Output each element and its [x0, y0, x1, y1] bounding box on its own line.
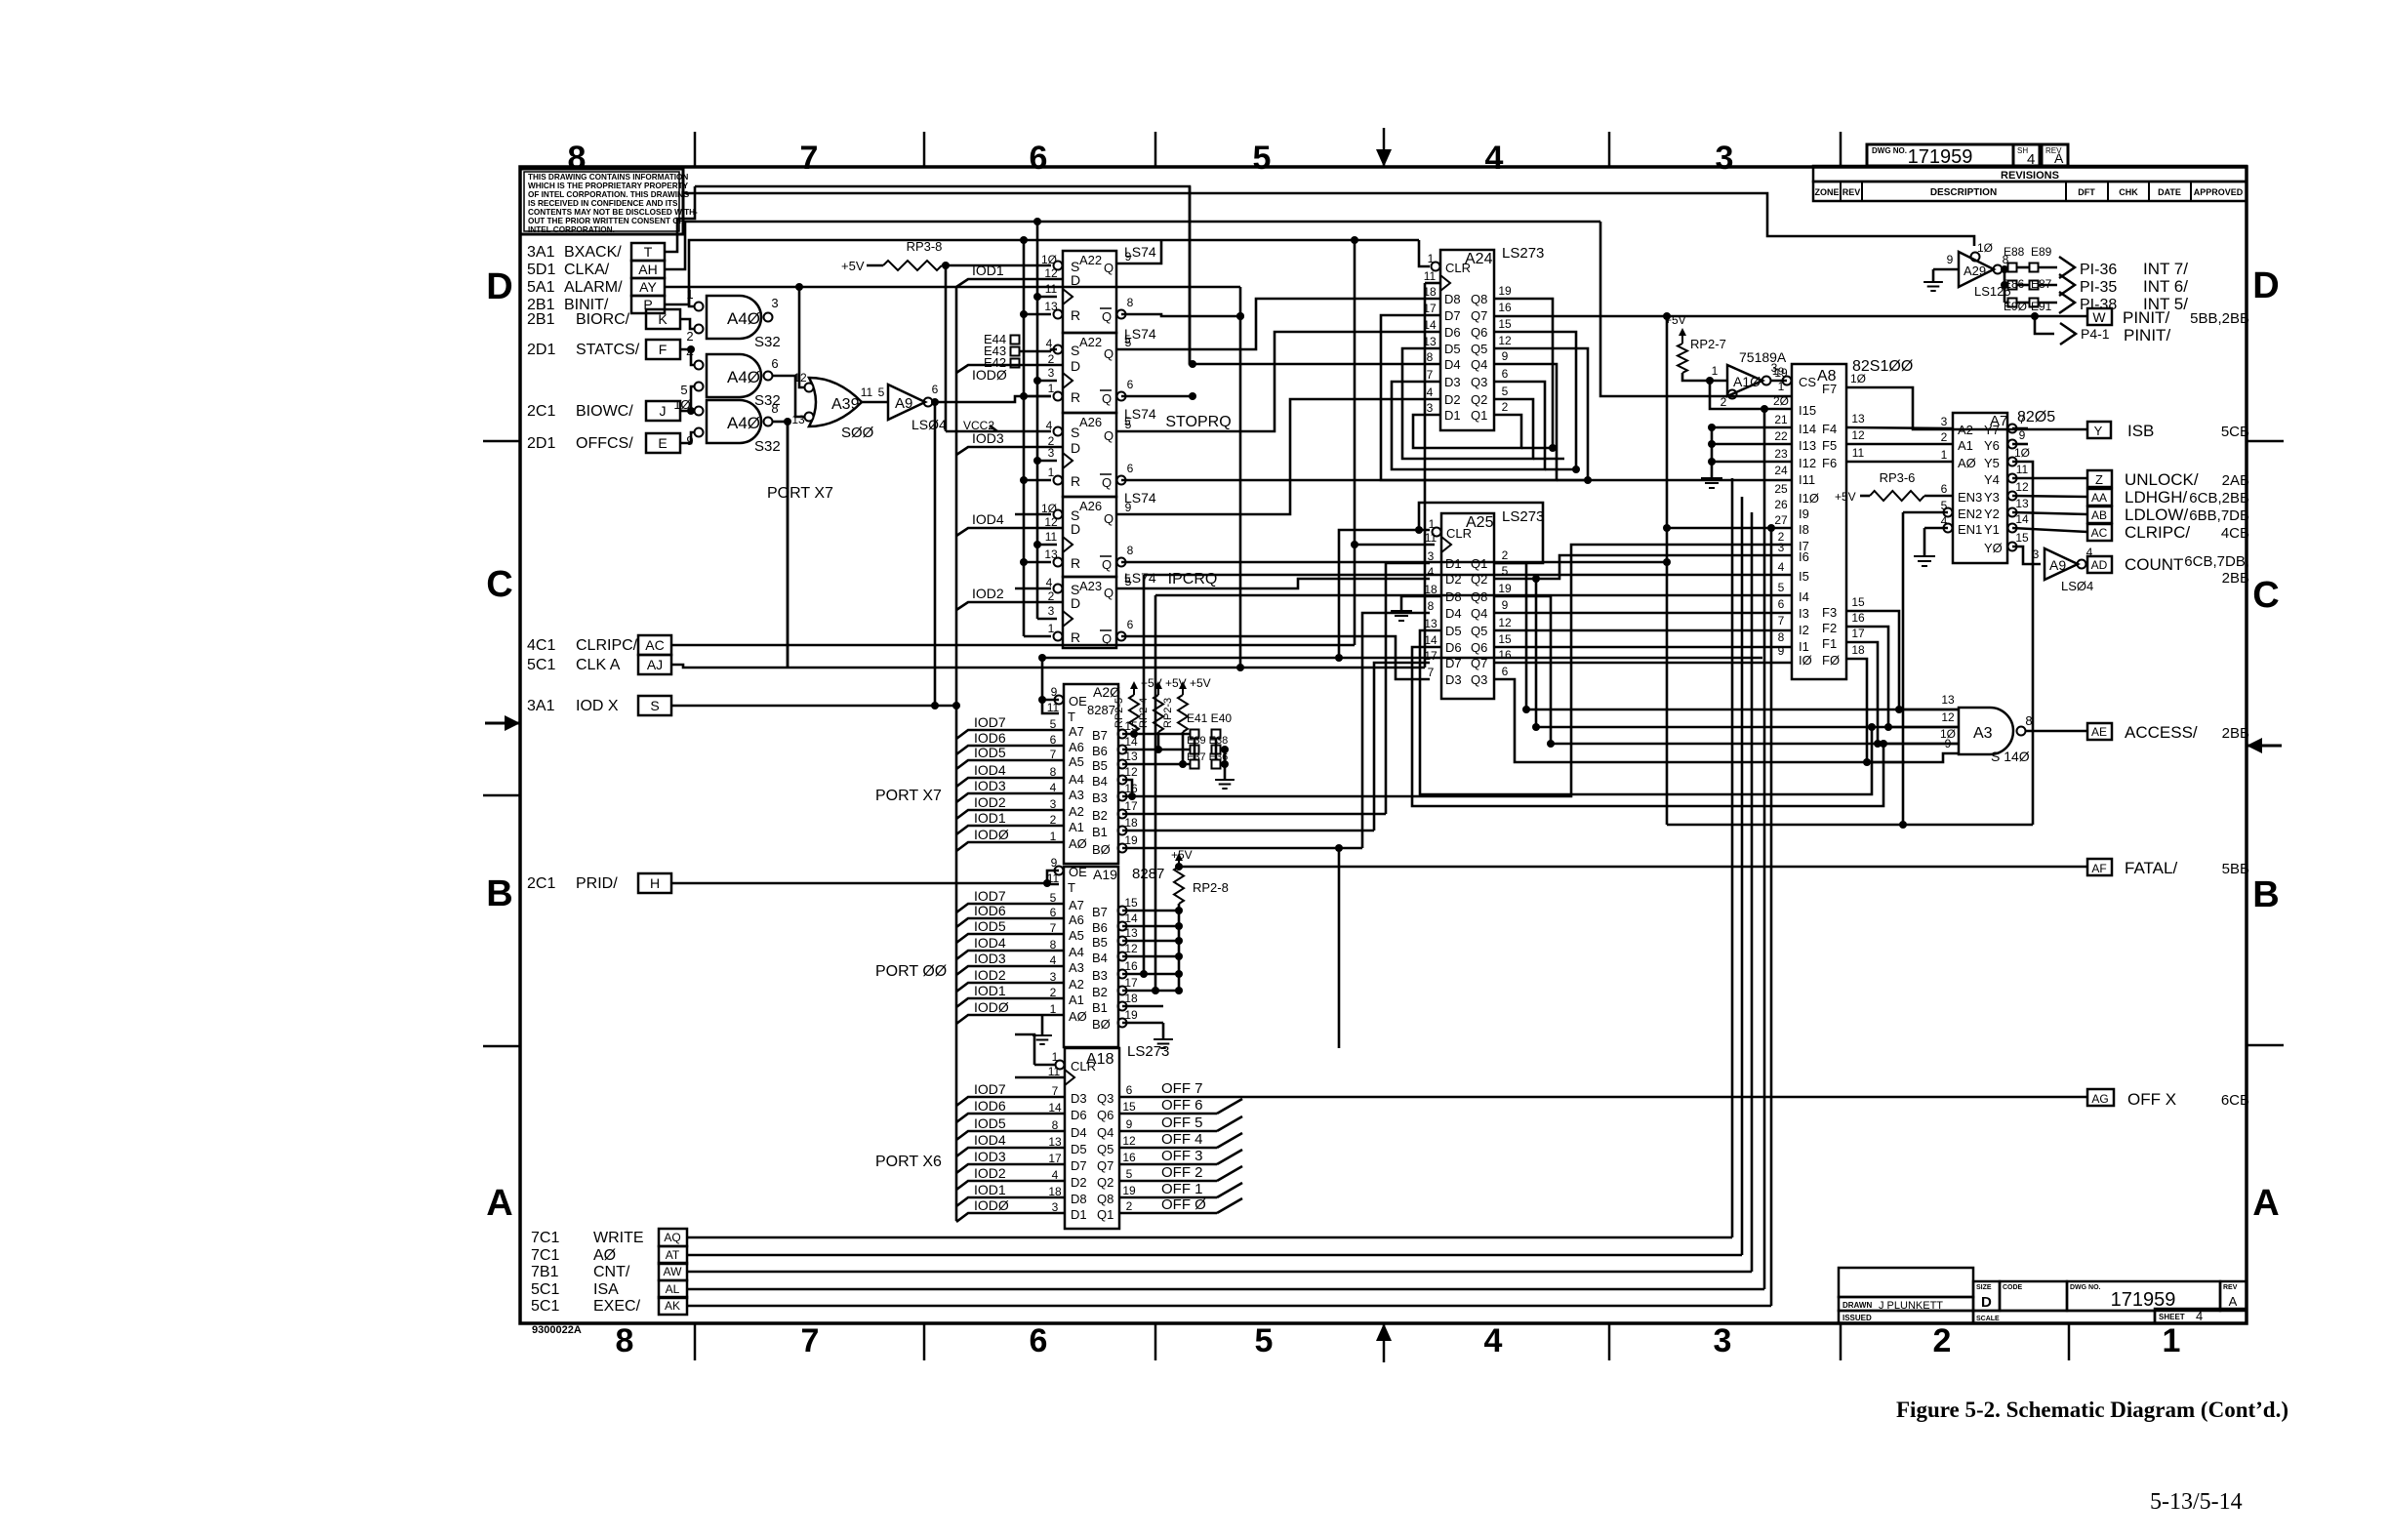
wire A25 bottom loop [1420, 630, 1876, 794]
svg-text:A22: A22 [1079, 253, 1102, 267]
svg-text:3: 3 [1427, 401, 1434, 415]
wire EN1 ground [1914, 528, 1948, 566]
jumper E37 E36 [1187, 751, 1229, 769]
wire A18 IOD4 [956, 1132, 1065, 1156]
svg-text:19: 19 [1498, 284, 1512, 298]
input OFFCS/ 2D1 [527, 435, 633, 452]
svg-text:CLRIPC/: CLRIPC/ [2125, 523, 2190, 542]
svg-text:1: 1 [1941, 448, 1948, 462]
svg-text:DWG NO.: DWG NO. [1872, 146, 1907, 155]
buffer A39 LS125 [1947, 241, 2011, 299]
svg-text:OFF 7: OFF 7 [1161, 1080, 1203, 1097]
svg-text:+5V: +5V [1190, 676, 1211, 690]
svg-text:Q: Q [1102, 391, 1112, 406]
wire IOD1 to FF D [956, 263, 1063, 287]
wire A40b out to OR pin13 [772, 376, 805, 417]
wire F5 to A1 [1846, 443, 1953, 446]
svg-text:WRITE: WRITE [593, 1230, 644, 1246]
zone letter left D [486, 266, 512, 307]
svg-text:3: 3 [1941, 415, 1948, 428]
svg-text:D: D [1071, 272, 1080, 288]
svg-text:5C1: 5C1 [527, 657, 555, 673]
wire notice-line to LS125 pin10 [683, 193, 1974, 246]
connector Z UNLOCK [2087, 470, 2249, 489]
svg-text:D4: D4 [1445, 606, 1462, 621]
svg-text:IOD6: IOD6 [974, 1098, 1006, 1114]
wire A18 IOD2 [956, 1165, 1065, 1190]
scan id 9300022A [532, 1324, 582, 1336]
svg-text:D3: D3 [1071, 1091, 1087, 1106]
connector AW [659, 1263, 687, 1280]
wire OFF 2 [1119, 1164, 1242, 1181]
svg-text:I6: I6 [1799, 549, 1809, 564]
svg-text:+5V: +5V [841, 259, 865, 273]
svg-text:DWG NO.: DWG NO. [2070, 1284, 2101, 1291]
wire A24 Q8 out [1494, 299, 1557, 452]
svg-text:CODE: CODE [2003, 1284, 2023, 1291]
wire Y2 to AB [2012, 512, 2087, 514]
svg-text:3: 3 [1716, 140, 1734, 177]
proprietary notice box [520, 169, 698, 234]
svg-text:B6: B6 [1092, 920, 1108, 935]
PLA A8 82S100 [1773, 358, 1913, 679]
svg-text:IOD3: IOD3 [974, 778, 1006, 793]
svg-text:9: 9 [1126, 1117, 1133, 1131]
svg-text:13: 13 [1044, 547, 1058, 561]
wire INT5 [2038, 292, 2188, 313]
svg-text:INT 6/: INT 6/ [2143, 277, 2188, 296]
svg-text:PORT ØØ: PORT ØØ [875, 963, 947, 980]
svg-text:IOD4: IOD4 [972, 511, 1004, 527]
svg-text:D1: D1 [1071, 1207, 1087, 1222]
svg-text:REV: REV [2223, 1284, 2238, 1291]
svg-text:AØ: AØ [1069, 836, 1087, 851]
svg-text:F1: F1 [1822, 636, 1837, 651]
svg-text:OFF 1: OFF 1 [1161, 1181, 1203, 1197]
svg-text:Q: Q [1104, 346, 1114, 361]
svg-text:A22: A22 [1079, 335, 1102, 349]
svg-text:CLR: CLR [1446, 526, 1472, 541]
svg-text:D: D [486, 266, 512, 307]
svg-text:D2: D2 [1444, 392, 1461, 407]
svg-text:IOD3: IOD3 [972, 430, 1004, 446]
svg-text:A1: A1 [1958, 438, 1973, 453]
svg-text:Y4: Y4 [1984, 472, 2000, 487]
wire A24 clk feed [1425, 282, 1440, 285]
svg-text:IOD7: IOD7 [974, 888, 1006, 904]
zone number bottom 8 [616, 1322, 634, 1359]
wire E to A40c [680, 432, 694, 443]
svg-text:RP3-8: RP3-8 [907, 239, 943, 254]
svg-text:Q: Q [1104, 586, 1114, 600]
svg-text:6: 6 [1127, 618, 1134, 631]
svg-text:F3: F3 [1822, 605, 1837, 620]
wire A10 to A8 CS [1770, 366, 1787, 381]
svg-text:7B1: 7B1 [531, 1264, 559, 1280]
svg-text:EN1: EN1 [1958, 522, 1982, 537]
svg-text:B1: B1 [1092, 1000, 1108, 1015]
connector AG OFFX [2087, 1089, 2249, 1109]
svg-text:AT: AT [666, 1248, 680, 1262]
svg-text:T: T [1068, 709, 1075, 724]
svg-text:I5: I5 [1799, 569, 1809, 584]
svg-text:I4: I4 [1799, 589, 1809, 604]
svg-text:D4: D4 [1071, 1125, 1087, 1140]
wire IOD2 to FF D [956, 586, 1063, 610]
wire CNT/ long [687, 512, 1752, 1272]
svg-text:A2: A2 [1069, 977, 1084, 992]
svg-text:PI-38: PI-38 [2080, 297, 2117, 313]
svg-text:T: T [1068, 880, 1075, 895]
svg-text:B: B [486, 873, 512, 914]
svg-text:A2: A2 [1958, 423, 1973, 437]
svg-text:13: 13 [1044, 300, 1058, 313]
wire A20 IODØ [956, 827, 1064, 851]
register A25 LS273 [1424, 508, 1544, 699]
svg-text:15: 15 [1498, 632, 1512, 646]
svg-text:4C1: 4C1 [527, 637, 555, 654]
svg-text:Q8: Q8 [1097, 1192, 1114, 1206]
wire A40c out [772, 418, 791, 668]
svg-text:D5: D5 [1445, 624, 1462, 638]
zone tick bottom [1840, 1323, 1842, 1360]
wire OFF 5 [1119, 1114, 1242, 1131]
svg-text:BØ: BØ [1092, 842, 1111, 857]
svg-text:IPCRQ: IPCRQ [1168, 571, 1218, 588]
svg-text:B4: B4 [1092, 951, 1108, 965]
svg-text:17: 17 [1424, 649, 1437, 663]
svg-text:A26: A26 [1079, 499, 1102, 513]
svg-text:AY: AY [639, 279, 657, 295]
wire A19 IODØ [956, 999, 1064, 1024]
zone tick bottom [1154, 1323, 1157, 1360]
svg-text:C: C [2252, 575, 2279, 616]
svg-text:A1: A1 [1069, 993, 1084, 1007]
svg-text:12: 12 [1122, 1134, 1136, 1148]
wire A3 out to AE [2025, 730, 2087, 733]
input CLRIPC/ 4C1 [527, 637, 638, 654]
svg-text:PORT X7: PORT X7 [767, 485, 833, 502]
svg-text:D8: D8 [1071, 1192, 1087, 1206]
svg-text:CLRIPC/: CLRIPC/ [576, 637, 638, 654]
connector AF FATAL [2087, 859, 2249, 877]
svg-text:D: D [1071, 595, 1080, 611]
svg-text:IOD1: IOD1 [974, 983, 1006, 998]
wire A25 Q7 to A8 I0 [1494, 662, 1792, 665]
wire A25 Q5 to A8 I2 [1494, 629, 1792, 632]
wire F to A40b [680, 345, 695, 365]
svg-text:R: R [1071, 473, 1080, 489]
wire B1 long [1122, 830, 1374, 832]
svg-text:I1: I1 [1799, 639, 1809, 654]
svg-text:ACCESS/: ACCESS/ [2125, 723, 2198, 742]
svg-text:REVISIONS: REVISIONS [2001, 170, 2059, 182]
svg-text:Y1: Y1 [1984, 522, 2000, 537]
svg-text:12: 12 [1498, 334, 1512, 347]
svg-text:BIOWC/: BIOWC/ [576, 403, 633, 420]
svg-text:9: 9 [1051, 685, 1058, 699]
svg-text:Q7: Q7 [1471, 308, 1487, 323]
riser B1 to A25 D7 [1374, 663, 1430, 831]
svg-text:A4: A4 [1069, 772, 1084, 787]
svg-text:PINIT/: PINIT/ [2124, 326, 2170, 344]
wire A9b to AD [2085, 563, 2087, 566]
svg-text:3A1: 3A1 [527, 244, 555, 261]
zone letter left C [486, 564, 512, 605]
svg-text:CNT/: CNT/ [593, 1264, 630, 1280]
wire A18 IOD5 [956, 1115, 1065, 1140]
centering arrow right [2247, 738, 2282, 753]
svg-text:PI-35: PI-35 [2080, 279, 2117, 296]
ground A19 A0 [1033, 1015, 1052, 1044]
svg-text:IOD2: IOD2 [972, 586, 1004, 601]
wire IOD X from S box [671, 702, 960, 709]
connector S [638, 696, 671, 715]
svg-text:Y7: Y7 [1984, 423, 2000, 437]
svg-text:5: 5 [878, 385, 885, 399]
riser B0 to A25 D4 [1362, 613, 1430, 848]
wire clk chain [1033, 222, 1057, 619]
svg-text:1: 1 [1048, 466, 1055, 479]
svg-text:F6: F6 [1822, 456, 1837, 470]
svg-text:RP3-6: RP3-6 [1880, 470, 1916, 485]
svg-text:4: 4 [1427, 385, 1434, 399]
wire FATAL long [1175, 863, 2087, 871]
wire A24 loop 2 [1402, 348, 1564, 459]
svg-text:H: H [650, 875, 660, 891]
svg-text:Y2: Y2 [1984, 507, 2000, 521]
svg-text:7: 7 [1427, 368, 1434, 382]
svg-text:F: F [659, 342, 668, 357]
svg-text:A3: A3 [1973, 725, 1993, 742]
svg-text:S: S [1071, 343, 1079, 358]
svg-text:11: 11 [861, 385, 873, 399]
svg-text:17: 17 [1851, 627, 1865, 640]
svg-text:F7: F7 [1822, 382, 1837, 396]
svg-text:OFF 6: OFF 6 [1161, 1097, 1203, 1114]
svg-text:5: 5 [1124, 415, 1131, 428]
svg-text:A9: A9 [895, 395, 912, 412]
svg-text:7C1: 7C1 [531, 1230, 559, 1246]
svg-text:Q: Q [1104, 261, 1114, 275]
wire A24 CLR feed [1419, 240, 1430, 266]
svg-text:BIORC/: BIORC/ [576, 311, 630, 328]
svg-text:13: 13 [2015, 497, 2029, 510]
svg-text:4CB: 4CB [2221, 525, 2249, 542]
svg-text:E37 E36: E37 E36 [1187, 751, 1228, 763]
wire A18 clk feed [1015, 1076, 1065, 1079]
svg-text:5: 5 [1124, 572, 1131, 586]
wire B5 pullup [1122, 732, 1191, 768]
svg-text:D6: D6 [1444, 325, 1461, 340]
svg-text:Q2: Q2 [1471, 392, 1487, 407]
wire OFF 7 [1119, 1080, 2087, 1097]
zone number bottom 7 [801, 1322, 820, 1359]
wire A25 CLR feed [1335, 530, 1430, 662]
zone number bottom 6 [1030, 1322, 1048, 1359]
wire B3 to A8 I7 [1122, 545, 1792, 796]
input CLK A 5C1 [527, 657, 621, 673]
pullup RP2-4 +5V [1138, 676, 1187, 732]
label PORT X6 [875, 1154, 942, 1170]
input STATCS/ 2D1 [527, 342, 640, 358]
svg-text:4: 4 [1428, 565, 1435, 579]
wire B2 long [1122, 813, 1386, 816]
wire A8 F2 riser [1846, 627, 1959, 731]
svg-text:SØØ: SØØ [841, 425, 874, 441]
wire INT7 [2038, 257, 2188, 278]
wire CLRIPC net [671, 644, 1355, 647]
connector AB LDLOW [2087, 506, 2249, 524]
svg-text:I3: I3 [1799, 606, 1809, 621]
svg-text:6: 6 [1127, 462, 1134, 475]
input BINIT/ 2B1 [527, 297, 609, 313]
svg-text:OFF Ø: OFF Ø [1161, 1196, 1206, 1213]
svg-text:3: 3 [2033, 547, 2040, 561]
svg-text:8: 8 [1428, 599, 1435, 613]
figure caption [1896, 1398, 2288, 1422]
svg-text:4: 4 [1778, 560, 1785, 574]
svg-text:24: 24 [1774, 464, 1788, 477]
svg-text:STOPRQ: STOPRQ [1165, 414, 1231, 430]
svg-text:OE: OE [1069, 694, 1087, 709]
wire LS125 out to jumpers [2001, 265, 2030, 303]
svg-text:IODØ: IODØ [974, 999, 1009, 1015]
svg-text:E88: E88 [2004, 245, 2025, 259]
svg-text:16: 16 [1851, 611, 1865, 625]
svg-text:E89: E89 [2031, 245, 2052, 259]
zone number top 5 [1253, 140, 1272, 177]
svg-text:AJ: AJ [647, 657, 663, 672]
svg-text:EXEC/: EXEC/ [593, 1298, 641, 1315]
zone number bottom 1 [2163, 1322, 2181, 1359]
AND gate A40c S32 [673, 397, 780, 455]
svg-text:CHK: CHK [2119, 187, 2138, 197]
wire FF1 Qbot [1121, 312, 1244, 320]
pullup RP3-6 +5V [1835, 470, 1953, 504]
svg-text:D7: D7 [1071, 1158, 1087, 1173]
svg-text:I12: I12 [1799, 456, 1816, 470]
svg-text:7: 7 [1428, 666, 1435, 679]
svg-text:2: 2 [686, 329, 693, 344]
ground E jumpers [1215, 771, 1235, 789]
svg-text:CLK A: CLK A [576, 657, 621, 673]
svg-text:BXACK/: BXACK/ [564, 244, 622, 261]
svg-text:D3: D3 [1445, 672, 1462, 687]
wire B0 long [1122, 844, 1362, 852]
svg-text:S32: S32 [754, 438, 781, 455]
svg-text:IOD X: IOD X [576, 698, 619, 714]
riser A19 B3 to A8 I5 [1140, 575, 1792, 978]
connector H [638, 873, 671, 893]
svg-text:Q: Q [1102, 557, 1112, 572]
jumper E86 E87 [2004, 277, 2052, 291]
wire A19 IOD6 [956, 903, 1064, 927]
svg-text:Z: Z [2095, 472, 2103, 487]
wire A25 Q6 to A8 I1 [1494, 646, 1792, 649]
bus RP2-8 pulldown [1175, 904, 1183, 994]
svg-text:8: 8 [616, 1322, 634, 1359]
wire Y3 to AA [2012, 496, 2087, 497]
svg-text:D: D [1981, 1294, 1992, 1311]
wire reset chain [1020, 240, 1051, 636]
wire CLKA AH net [665, 218, 1792, 396]
svg-text:A4Ø: A4Ø [727, 414, 760, 432]
svg-text:Q: Q [1104, 428, 1114, 443]
svg-text:1Ø: 1Ø [1041, 253, 1057, 266]
svg-text:8: 8 [1778, 630, 1785, 644]
svg-text:16: 16 [1498, 301, 1512, 314]
svg-text:OFF X: OFF X [2127, 1090, 2176, 1109]
svg-text:PI-36: PI-36 [2080, 262, 2117, 278]
svg-text:19: 19 [1498, 582, 1512, 595]
svg-text:INT 7/: INT 7/ [2143, 260, 2188, 278]
svg-text:DRAWN: DRAWN [1842, 1301, 1872, 1310]
label PORT X7 [875, 788, 942, 804]
svg-text:4: 4 [1484, 1322, 1503, 1359]
svg-text:LS273: LS273 [1502, 508, 1544, 525]
wire A8 F1 riser [1846, 642, 1959, 748]
wire B4 join B3 [1122, 780, 1136, 800]
input PRID/ 2C1 [527, 875, 618, 892]
input WRITE 7C1 [531, 1230, 644, 1246]
svg-text:1: 1 [1052, 1050, 1059, 1064]
wire A19 B pullup [1122, 955, 1179, 958]
svg-text:9: 9 [1125, 501, 1132, 514]
svg-text:RP2-8: RP2-8 [1193, 880, 1229, 895]
svg-text:IOD1: IOD1 [974, 1182, 1006, 1197]
svg-text:A: A [2229, 1294, 2238, 1309]
OR gate A39 S00 [791, 371, 873, 441]
jumper E42 [984, 355, 1020, 370]
svg-text:CS: CS [1799, 375, 1816, 389]
svg-text:AE: AE [2091, 725, 2107, 739]
svg-text:Q4: Q4 [1097, 1125, 1114, 1140]
zone tick top [1608, 132, 1611, 167]
svg-text:PORT X7: PORT X7 [875, 788, 942, 804]
svg-text:I13: I13 [1799, 438, 1816, 453]
svg-text:Y3: Y3 [1984, 490, 2000, 505]
AND gate A40a S32 [686, 287, 780, 350]
svg-text:Figure 5-2. Schematic Diagram: Figure 5-2. Schematic Diagram (Cont’d.) [1896, 1398, 2288, 1422]
svg-text:+5V: +5V [1835, 490, 1856, 504]
svg-text:9: 9 [1502, 349, 1509, 363]
svg-text:14: 14 [1424, 633, 1437, 647]
svg-text:A5: A5 [1069, 928, 1084, 943]
svg-text:1: 1 [1048, 622, 1055, 635]
svg-text:75189A: 75189A [1739, 349, 1787, 365]
svg-text:D7: D7 [1444, 308, 1461, 323]
wire AØ long [687, 497, 1742, 1255]
svg-text:D5: D5 [1071, 1142, 1087, 1156]
pullup RP2-7 +5V [1665, 313, 1726, 373]
svg-text:AC: AC [2091, 526, 2108, 540]
svg-text:S 14Ø: S 14Ø [1991, 749, 2030, 764]
svg-text:22: 22 [1774, 429, 1788, 443]
svg-text:D: D [1071, 521, 1080, 537]
junction EXEC I8 [1767, 524, 1775, 532]
svg-text:AG: AG [2091, 1092, 2108, 1106]
svg-text:9: 9 [1125, 250, 1132, 263]
wire Y4 to Z [2012, 477, 2087, 480]
svg-text:11: 11 [1424, 269, 1437, 283]
flip-flop A23 #5 LS74 [1046, 570, 1156, 648]
title block [1839, 1268, 2247, 1323]
svg-text:AL: AL [666, 1282, 680, 1296]
svg-text:Q3: Q3 [1471, 672, 1487, 687]
svg-text:A: A [486, 1183, 512, 1224]
input CNT/ 7B1 [531, 1264, 630, 1280]
